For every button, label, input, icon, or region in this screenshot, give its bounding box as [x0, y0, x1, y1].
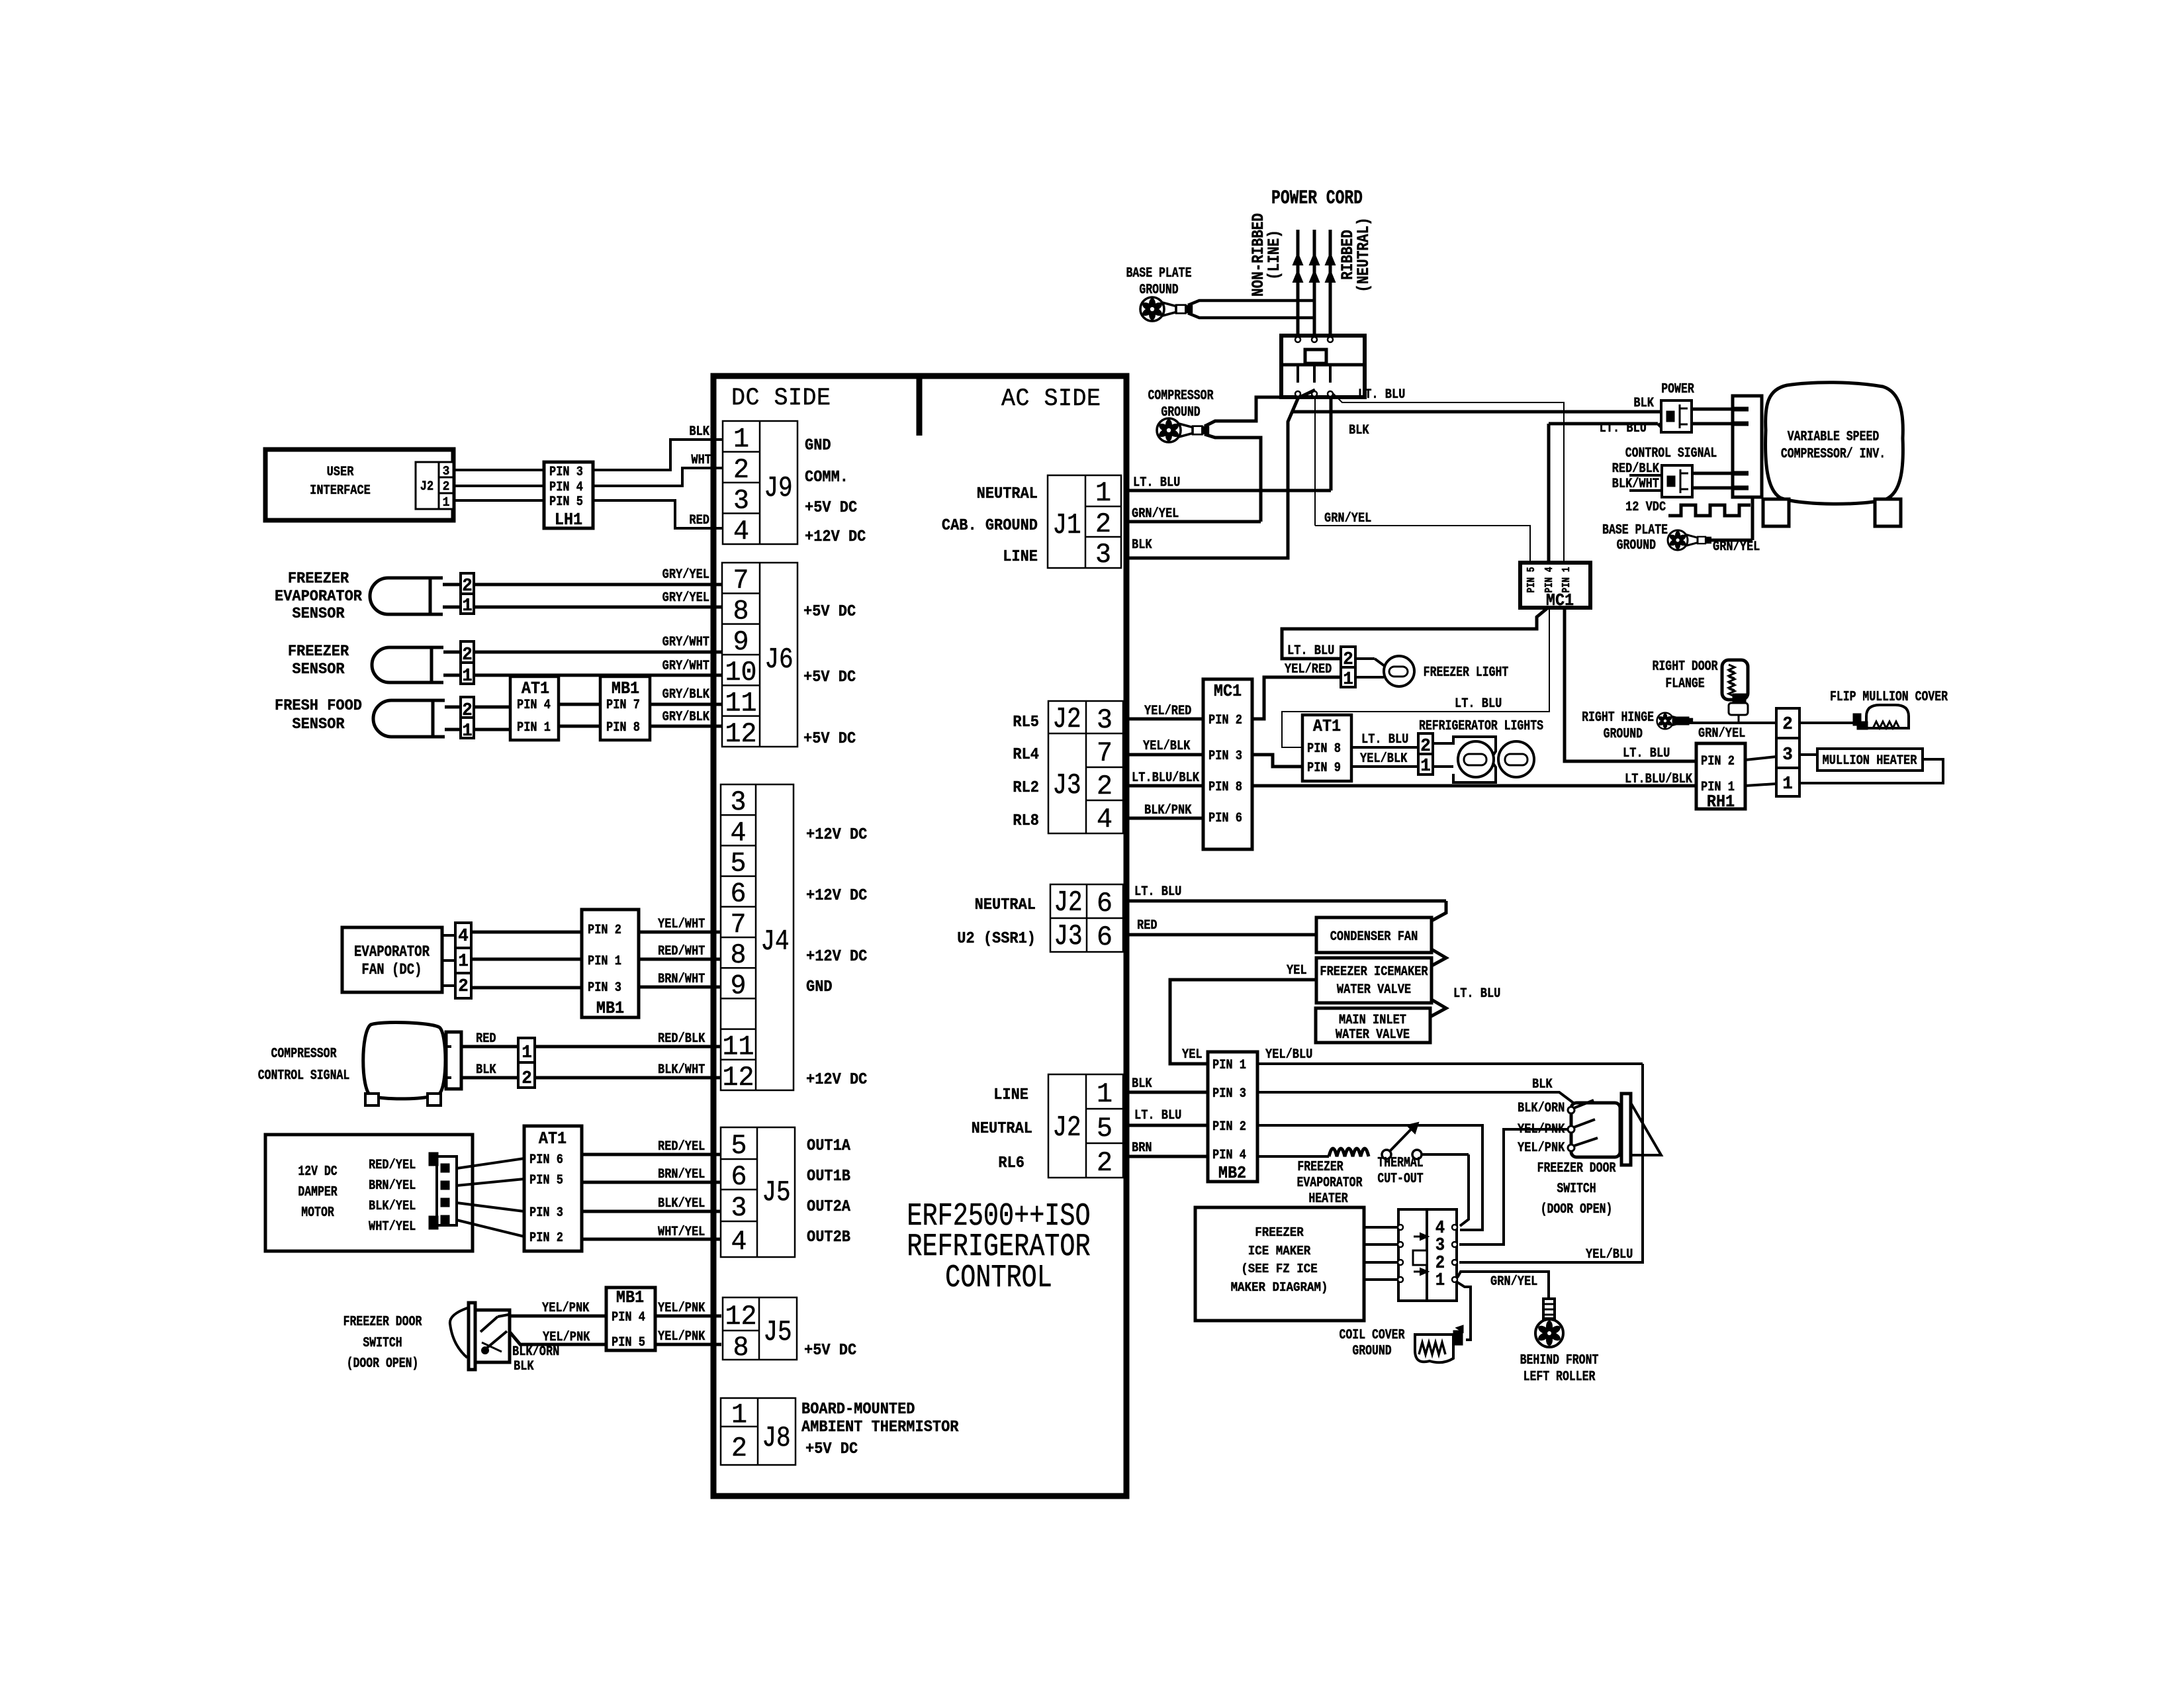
svg-text:RED/BLK: RED/BLK [658, 1031, 705, 1047]
svg-text:12: 12 [722, 1062, 754, 1094]
svg-text:YEL/PNK: YEL/PNK [658, 1329, 705, 1344]
svg-text:1: 1 [1782, 774, 1793, 794]
svg-text:FREEZER ICEMAKER: FREEZER ICEMAKER [1320, 964, 1428, 980]
svg-text:3: 3 [1097, 705, 1113, 736]
svg-text:(DOOR OPEN): (DOOR OPEN) [1541, 1201, 1613, 1217]
svg-text:1: 1 [1435, 1270, 1445, 1290]
svg-text:J3: J3 [1054, 920, 1082, 953]
svg-text:12: 12 [725, 719, 756, 750]
svg-text:+12V DC: +12V DC [806, 1070, 867, 1088]
svg-text:(NEUTRAL): (NEUTRAL) [1355, 217, 1373, 292]
svg-text:PIN 3: PIN 3 [529, 1205, 563, 1221]
svg-text:MB1: MB1 [616, 1288, 644, 1307]
svg-text:8: 8 [733, 596, 749, 628]
svg-text:7: 7 [1097, 738, 1113, 769]
svg-text:OUT2B: OUT2B [807, 1228, 850, 1246]
svg-text:FREEZER DOOR: FREEZER DOOR [343, 1313, 422, 1330]
svg-text:BLK/ORN: BLK/ORN [512, 1344, 559, 1360]
svg-text:7: 7 [733, 565, 749, 596]
svg-text:J2: J2 [1052, 703, 1081, 735]
svg-text:PIN 9: PIN 9 [1307, 760, 1341, 776]
svg-text:PIN 8: PIN 8 [606, 720, 640, 735]
svg-text:FLIP MULLION COVER: FLIP MULLION COVER [1830, 688, 1948, 705]
svg-text:PIN 2: PIN 2 [1212, 1119, 1246, 1135]
svg-text:2: 2 [1343, 649, 1353, 670]
svg-text:GRY/YEL: GRY/YEL [662, 590, 709, 606]
svg-text:2: 2 [462, 645, 473, 665]
svg-text:LEFT ROLLER: LEFT ROLLER [1524, 1368, 1596, 1385]
svg-text:4: 4 [733, 516, 749, 547]
svg-text:5: 5 [1097, 1113, 1113, 1145]
svg-text:PIN 4: PIN 4 [517, 697, 551, 713]
svg-text:POWER CORD: POWER CORD [1271, 187, 1363, 210]
svg-text:1: 1 [443, 494, 450, 510]
svg-text:FLANGE: FLANGE [1665, 675, 1704, 692]
svg-text:+5V DC: +5V DC [803, 602, 856, 620]
svg-text:BLK: BLK [1633, 395, 1654, 411]
svg-text:PIN 5: PIN 5 [612, 1335, 645, 1350]
svg-text:6: 6 [730, 879, 746, 910]
svg-text:GRY/WHT: GRY/WHT [662, 658, 709, 674]
svg-text:CONTROL: CONTROL [945, 1260, 1052, 1296]
svg-text:11: 11 [725, 688, 756, 720]
svg-text:2: 2 [462, 700, 473, 721]
svg-text:BLK/WHT: BLK/WHT [1612, 476, 1659, 492]
svg-text:FAN (DC): FAN (DC) [361, 962, 422, 979]
svg-text:1: 1 [462, 666, 473, 686]
svg-text:+5V DC: +5V DC [803, 729, 856, 747]
svg-text:RED: RED [1137, 917, 1158, 933]
svg-text:6: 6 [1097, 922, 1113, 953]
svg-text:PIN 1: PIN 1 [1212, 1057, 1246, 1073]
svg-text:NEUTRAL: NEUTRAL [975, 896, 1036, 914]
svg-text:PIN 2: PIN 2 [529, 1230, 563, 1246]
svg-text:RIGHT DOOR: RIGHT DOOR [1653, 658, 1718, 675]
svg-text:GRN/YEL: GRN/YEL [1713, 539, 1760, 555]
svg-text:WHT/YEL: WHT/YEL [658, 1224, 705, 1240]
svg-text:2: 2 [1097, 771, 1113, 802]
svg-text:+12V DC: +12V DC [805, 528, 866, 545]
svg-text:2: 2 [1420, 736, 1431, 757]
svg-text:J1: J1 [1052, 509, 1081, 541]
svg-text:BEHIND FRONT: BEHIND FRONT [1520, 1352, 1599, 1368]
svg-text:GND: GND [806, 978, 833, 996]
svg-text:RL5: RL5 [1013, 713, 1039, 731]
svg-text:LINE: LINE [993, 1086, 1028, 1103]
svg-text:J2: J2 [420, 479, 433, 494]
svg-text:BLK/WHT: BLK/WHT [658, 1062, 705, 1078]
svg-text:YEL/RED: YEL/RED [1285, 661, 1332, 677]
svg-text:(SEE FZ ICE: (SEE FZ ICE [1241, 1262, 1317, 1276]
svg-text:LINE: LINE [1003, 547, 1038, 565]
svg-text:PIN 6: PIN 6 [1208, 810, 1242, 826]
svg-text:LT. BLU: LT. BLU [1134, 1107, 1181, 1123]
svg-text:ICE MAKER: ICE MAKER [1248, 1244, 1311, 1258]
svg-text:PIN 2: PIN 2 [588, 922, 621, 938]
svg-text:CUT-OUT: CUT-OUT [1377, 1170, 1423, 1187]
svg-text:J9: J9 [764, 472, 792, 504]
svg-text:+5V DC: +5V DC [805, 1440, 858, 1458]
svg-text:GRY/WHT: GRY/WHT [662, 634, 709, 650]
svg-text:OUT1B: OUT1B [807, 1167, 850, 1185]
svg-text:6: 6 [1097, 888, 1113, 919]
svg-text:BRN: BRN [1132, 1140, 1152, 1156]
svg-text:12V DC: 12V DC [298, 1163, 337, 1180]
svg-text:DC SIDE: DC SIDE [731, 384, 831, 412]
svg-text:PIN 8: PIN 8 [1307, 741, 1341, 757]
svg-text:BLK: BLK [1349, 422, 1369, 438]
svg-text:FREEZER: FREEZER [1255, 1225, 1304, 1240]
svg-text:RL6: RL6 [998, 1154, 1024, 1172]
svg-text:SENSOR: SENSOR [292, 660, 344, 678]
svg-text:NEUTRAL: NEUTRAL [977, 485, 1038, 502]
svg-text:COMPRESSOR: COMPRESSOR [1148, 387, 1214, 404]
svg-text:LH1: LH1 [555, 510, 582, 530]
svg-text:RH1: RH1 [1707, 792, 1735, 812]
svg-text:GND: GND [805, 436, 831, 454]
svg-text:USER: USER [327, 464, 354, 480]
svg-text:MC1: MC1 [1214, 682, 1242, 701]
svg-text:GROUND: GROUND [1139, 281, 1178, 298]
svg-text:2: 2 [522, 1068, 532, 1089]
svg-text:RED/BLK: RED/BLK [1612, 461, 1660, 477]
svg-text:LT. BLU: LT. BLU [1361, 731, 1408, 747]
svg-text:GRY/YEL: GRY/YEL [662, 567, 709, 583]
svg-text:YEL: YEL [1287, 962, 1307, 978]
svg-text:U2 (SSR1): U2 (SSR1) [957, 929, 1036, 947]
svg-text:AC SIDE: AC SIDE [1001, 385, 1101, 412]
svg-text:RIGHT HINGE: RIGHT HINGE [1582, 709, 1654, 726]
svg-text:2: 2 [458, 976, 469, 997]
svg-text:11: 11 [722, 1032, 754, 1063]
svg-text:2: 2 [462, 576, 473, 596]
svg-text:3: 3 [731, 1193, 747, 1224]
svg-text:PIN 5: PIN 5 [529, 1172, 563, 1188]
svg-text:2: 2 [1782, 714, 1793, 735]
svg-text:4: 4 [730, 818, 746, 849]
svg-text:3: 3 [733, 485, 749, 516]
svg-text:LT. BLU: LT. BLU [1358, 387, 1405, 402]
svg-text:(DOOR OPEN): (DOOR OPEN) [347, 1355, 419, 1372]
svg-text:BLK: BLK [1132, 537, 1152, 553]
svg-text:SENSOR: SENSOR [292, 604, 344, 622]
svg-text:BLK/YEL: BLK/YEL [369, 1198, 416, 1214]
svg-text:3: 3 [1435, 1235, 1445, 1255]
svg-text:3: 3 [1095, 539, 1111, 571]
svg-text:3: 3 [730, 787, 746, 818]
svg-text:BRN/YEL: BRN/YEL [658, 1166, 705, 1182]
svg-text:REFRIGERATOR: REFRIGERATOR [907, 1229, 1090, 1265]
svg-text:COMPRESSOR/ INV.: COMPRESSOR/ INV. [1781, 445, 1886, 462]
svg-text:HEATER: HEATER [1308, 1190, 1348, 1207]
svg-text:YEL/PNK: YEL/PNK [542, 1300, 590, 1316]
svg-text:GROUND: GROUND [1352, 1342, 1391, 1359]
svg-text:1: 1 [462, 721, 473, 741]
svg-text:LT. BLU: LT. BLU [1623, 745, 1670, 761]
svg-text:WATER VALVE: WATER VALVE [1336, 1027, 1410, 1043]
svg-text:PIN 3: PIN 3 [1212, 1086, 1246, 1102]
svg-text:BASE PLATE: BASE PLATE [1602, 522, 1668, 538]
svg-text:PIN 5: PIN 5 [1526, 567, 1538, 592]
svg-text:6: 6 [731, 1162, 747, 1193]
svg-text:PIN 4: PIN 4 [549, 479, 583, 495]
svg-text:2: 2 [731, 1433, 747, 1464]
svg-text:WHT/YEL: WHT/YEL [369, 1219, 416, 1235]
svg-text:LT. BLU: LT. BLU [1287, 643, 1334, 659]
svg-text:PIN 5: PIN 5 [549, 494, 583, 510]
svg-text:PIN 6: PIN 6 [529, 1152, 563, 1168]
svg-text:5: 5 [730, 849, 746, 880]
svg-text:1: 1 [1097, 1079, 1113, 1110]
svg-text:FREEZER: FREEZER [1297, 1158, 1343, 1175]
svg-text:GRN/YEL: GRN/YEL [1324, 510, 1371, 526]
svg-text:FREEZER LIGHT: FREEZER LIGHT [1424, 664, 1509, 680]
svg-text:YEL/RED: YEL/RED [1144, 703, 1191, 719]
svg-text:MOTOR: MOTOR [301, 1204, 334, 1221]
svg-text:AT1: AT1 [539, 1129, 567, 1149]
svg-text:EVAPORATOR: EVAPORATOR [275, 587, 362, 605]
svg-text:LT. BLU: LT. BLU [1133, 475, 1180, 491]
svg-text:BRN/WHT: BRN/WHT [658, 971, 705, 987]
svg-text:PIN 8: PIN 8 [1208, 779, 1242, 795]
svg-text:BLK: BLK [514, 1358, 534, 1374]
svg-text:RED/YEL: RED/YEL [658, 1139, 705, 1154]
svg-text:PIN 7: PIN 7 [606, 697, 640, 713]
svg-text:J3: J3 [1052, 769, 1081, 802]
svg-text:PIN 3: PIN 3 [588, 980, 621, 996]
svg-text:CONTROL SIGNAL: CONTROL SIGNAL [1625, 445, 1717, 461]
svg-text:J5: J5 [763, 1316, 792, 1348]
svg-text:J8: J8 [762, 1422, 790, 1454]
svg-text:YEL/PNK: YEL/PNK [1518, 1140, 1565, 1156]
svg-text:BOARD-MOUNTED: BOARD-MOUNTED [801, 1400, 915, 1418]
svg-text:1: 1 [522, 1043, 532, 1063]
svg-text:PIN 3: PIN 3 [1208, 748, 1242, 764]
svg-text:COMPRESSOR: COMPRESSOR [271, 1045, 337, 1062]
svg-text:4: 4 [1097, 804, 1113, 835]
svg-text:3: 3 [443, 463, 450, 479]
svg-text:9: 9 [733, 627, 749, 658]
svg-text:J2: J2 [1052, 1111, 1081, 1144]
svg-text:RL4: RL4 [1013, 745, 1039, 763]
svg-text:1: 1 [1420, 756, 1431, 776]
svg-text:8: 8 [733, 1333, 749, 1364]
svg-text:+5V DC: +5V DC [803, 668, 856, 686]
svg-text:8: 8 [730, 940, 746, 971]
svg-text:SENSOR: SENSOR [292, 715, 344, 733]
svg-text:NEUTRAL: NEUTRAL [972, 1119, 1032, 1137]
svg-text:1: 1 [1343, 669, 1353, 690]
svg-text:COMM.: COMM. [805, 468, 848, 486]
svg-text:J6: J6 [764, 643, 793, 676]
svg-text:PIN 3: PIN 3 [549, 464, 583, 480]
svg-text:BLK: BLK [476, 1062, 496, 1078]
svg-text:3: 3 [1782, 745, 1793, 765]
svg-text:COIL COVER: COIL COVER [1340, 1327, 1405, 1343]
svg-text:PIN 2: PIN 2 [1208, 712, 1242, 728]
svg-text:GRN/YEL: GRN/YEL [1490, 1274, 1537, 1289]
svg-text:PIN 4: PIN 4 [1212, 1147, 1246, 1163]
svg-text:PIN 2: PIN 2 [1701, 753, 1735, 769]
svg-text:GRY/BLK: GRY/BLK [662, 709, 710, 725]
svg-text:12 VDC: 12 VDC [1625, 499, 1666, 515]
svg-text:AT1: AT1 [522, 679, 549, 698]
svg-text:PIN 4: PIN 4 [1544, 567, 1556, 592]
svg-text:EVAPORATOR: EVAPORATOR [354, 945, 430, 961]
svg-text:LT.BLU/BLK: LT.BLU/BLK [1625, 771, 1693, 787]
svg-text:BLK: BLK [1532, 1076, 1553, 1092]
svg-text:YEL/PNK: YEL/PNK [543, 1329, 590, 1345]
svg-text:LT.BLU/BLK: LT.BLU/BLK [1132, 770, 1200, 786]
svg-text:OUT1A: OUT1A [807, 1137, 850, 1154]
svg-text:J2: J2 [1054, 886, 1082, 919]
svg-text:SWITCH: SWITCH [363, 1335, 402, 1351]
svg-text:2: 2 [1097, 1148, 1113, 1179]
svg-text:+5V DC: +5V DC [805, 498, 857, 516]
svg-text:BLK/YEL: BLK/YEL [658, 1196, 705, 1211]
svg-text:AT1: AT1 [1313, 717, 1341, 736]
svg-text:MULLION HEATER: MULLION HEATER [1823, 753, 1918, 769]
svg-text:2: 2 [1095, 509, 1111, 540]
svg-text:PIN 1: PIN 1 [517, 720, 551, 735]
svg-text:RL2: RL2 [1013, 778, 1039, 796]
svg-text:SWITCH: SWITCH [1557, 1180, 1596, 1197]
svg-text:GROUND: GROUND [1617, 537, 1656, 553]
svg-text:1: 1 [1095, 478, 1111, 509]
svg-text:MB1: MB1 [612, 679, 639, 698]
svg-text:BLK: BLK [1132, 1076, 1152, 1092]
svg-text:MC1: MC1 [1546, 591, 1574, 610]
svg-text:FREEZER DOOR: FREEZER DOOR [1537, 1160, 1616, 1176]
svg-text:DAMPER: DAMPER [298, 1184, 338, 1200]
svg-text:MAIN INLET: MAIN INLET [1339, 1013, 1406, 1028]
svg-text:MB1: MB1 [596, 999, 624, 1018]
svg-text:RED/WHT: RED/WHT [658, 943, 705, 959]
svg-text:J5: J5 [762, 1176, 790, 1209]
svg-text:INTERFACE: INTERFACE [310, 483, 371, 498]
svg-text:MAKER DIAGRAM): MAKER DIAGRAM) [1231, 1280, 1328, 1295]
svg-text:AMBIENT THERMISTOR: AMBIENT THERMISTOR [801, 1418, 959, 1436]
svg-text:LT. BLU: LT. BLU [1134, 884, 1181, 900]
svg-text:YEL: YEL [1182, 1047, 1203, 1062]
svg-text:9: 9 [730, 971, 746, 1002]
svg-text:BASE PLATE: BASE PLATE [1126, 265, 1192, 281]
svg-text:YEL/WHT: YEL/WHT [658, 916, 705, 932]
svg-text:1: 1 [458, 951, 469, 972]
svg-text:4: 4 [458, 926, 469, 947]
svg-text:FREEZER: FREEZER [288, 569, 349, 587]
svg-text:REFRIGERATOR LIGHTS: REFRIGERATOR LIGHTS [1419, 718, 1543, 734]
svg-text:EVAPORATOR: EVAPORATOR [1297, 1174, 1363, 1191]
svg-text:VARIABLE SPEED: VARIABLE SPEED [1788, 428, 1880, 445]
svg-text:BLK/PNK: BLK/PNK [1144, 802, 1192, 818]
svg-text:1: 1 [733, 424, 749, 455]
svg-text:RL8: RL8 [1013, 812, 1039, 829]
svg-text:7: 7 [730, 910, 746, 941]
svg-text:YEL/BLK: YEL/BLK [1143, 738, 1191, 754]
svg-text:PIN 1: PIN 1 [588, 953, 621, 969]
svg-text:4: 4 [731, 1227, 747, 1258]
svg-text:THERMAL: THERMAL [1377, 1154, 1423, 1171]
svg-text:1: 1 [462, 596, 473, 616]
svg-text:GRY/BLK: GRY/BLK [662, 686, 710, 702]
svg-text:YEL/BLU: YEL/BLU [1265, 1047, 1312, 1062]
svg-text:MB2: MB2 [1218, 1164, 1246, 1183]
svg-text:(LINE): (LINE) [1265, 230, 1284, 280]
svg-text:PIN 1: PIN 1 [1561, 567, 1573, 592]
svg-text:FRESH FOOD: FRESH FOOD [275, 696, 362, 714]
svg-text:GRN/YEL: GRN/YEL [1132, 506, 1179, 522]
svg-text:LT. BLU: LT. BLU [1453, 986, 1500, 1002]
svg-text:CONDENSER FAN: CONDENSER FAN [1330, 929, 1418, 945]
svg-text:FREEZER: FREEZER [288, 642, 349, 660]
svg-text:YEL/BLU: YEL/BLU [1586, 1246, 1633, 1262]
svg-text:GRN/YEL: GRN/YEL [1698, 726, 1745, 741]
svg-text:YEL/PNK: YEL/PNK [658, 1300, 705, 1316]
svg-text:OUT2A: OUT2A [807, 1197, 850, 1215]
svg-text:2: 2 [733, 455, 749, 486]
svg-text:GROUND: GROUND [1604, 726, 1643, 742]
svg-text:10: 10 [725, 657, 756, 688]
svg-text:2: 2 [443, 479, 450, 494]
svg-text:RED: RED [476, 1031, 496, 1047]
svg-text:+5V DC: +5V DC [804, 1341, 856, 1359]
svg-text:POWER: POWER [1661, 381, 1694, 397]
svg-text:CONTROL SIGNAL: CONTROL SIGNAL [258, 1067, 350, 1084]
svg-text:+12V DC: +12V DC [806, 886, 867, 904]
svg-text:LT. BLU: LT. BLU [1455, 696, 1502, 712]
svg-text:BLK: BLK [689, 424, 709, 440]
svg-text:YEL/BLK: YEL/BLK [1360, 751, 1408, 767]
svg-text:PIN 4: PIN 4 [612, 1309, 645, 1325]
svg-text:WATER VALVE: WATER VALVE [1337, 982, 1411, 998]
svg-text:BRN/YEL: BRN/YEL [369, 1178, 416, 1194]
svg-text:RED: RED [689, 512, 709, 528]
svg-text:WHT: WHT [691, 452, 711, 468]
svg-text:RED/YEL: RED/YEL [369, 1157, 416, 1173]
svg-text:12: 12 [725, 1301, 756, 1333]
svg-text:J4: J4 [760, 925, 789, 958]
svg-text:5: 5 [731, 1131, 747, 1162]
svg-text:+12V DC: +12V DC [806, 947, 867, 965]
svg-text:+12V DC: +12V DC [806, 825, 867, 843]
svg-text:CAB. GROUND: CAB. GROUND [942, 516, 1038, 534]
svg-text:BLK/ORN: BLK/ORN [1518, 1100, 1565, 1116]
svg-text:LT. BLU: LT. BLU [1600, 420, 1647, 436]
